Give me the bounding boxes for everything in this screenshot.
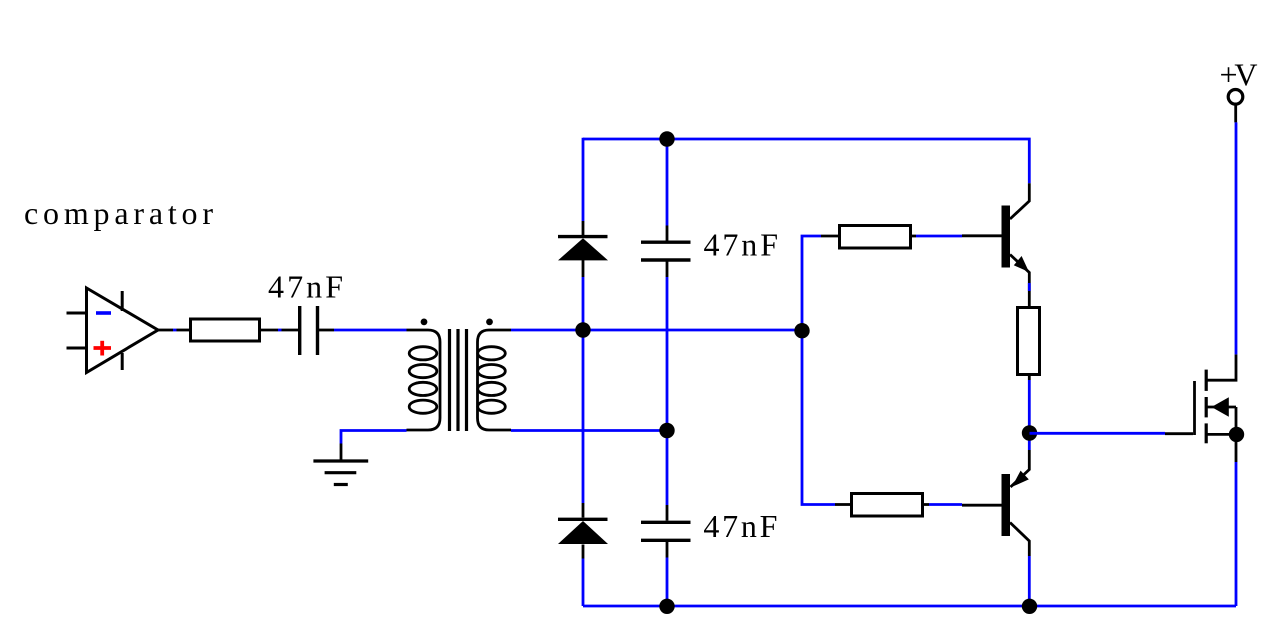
wire left vertical x=583 [582, 138, 585, 606]
ground [313, 461, 368, 485]
node dot mid wire / D1 line [575, 322, 590, 337]
wire gate [1030, 432, 1194, 435]
svg-text:comparator: comparator [24, 195, 213, 231]
resistor R1 [191, 319, 260, 341]
wire op-amp output [157, 329, 190, 332]
transistor Q1 (NPN top) [1002, 183, 1030, 306]
resistor R2 top [840, 226, 911, 249]
capacitor C2 47nF top [641, 242, 691, 260]
diode D1 [558, 237, 608, 261]
resistor R4 vertical [1018, 308, 1040, 375]
wire bottom rail [583, 605, 1236, 608]
wire branch x=802 to resistors [802, 236, 851, 505]
node dot emitter junction [1022, 425, 1037, 440]
wire R1 to C1 [261, 329, 298, 332]
transformer T1 [407, 319, 512, 432]
wire mosfet source down to bottom rail [1235, 434, 1238, 606]
op-amp U1 [67, 288, 159, 373]
wire primary bottom to ground [341, 431, 407, 461]
wire middle vertical x=667 [666, 139, 669, 606]
svg-text:47nF: 47nF [268, 269, 343, 305]
diode D2 [558, 519, 608, 544]
svg-text:47nF: 47nF [703, 508, 777, 544]
resistor R3 bottom [852, 494, 923, 517]
transistor Q2 (PNP bottom) [1002, 433, 1030, 606]
wire secondary top (node line y=330) [511, 329, 802, 332]
node dot bottom rail / Q2 collector [1022, 599, 1037, 614]
svg-text:+V: +V [1220, 57, 1258, 93]
node dot mosfet source [1229, 427, 1244, 442]
wire +V down to mosfet drain [1235, 122, 1238, 354]
svg-text:47nF: 47nF [704, 227, 779, 263]
mosfet Q3 [1195, 354, 1237, 443]
wire secondary bottom [511, 429, 667, 432]
capacitor C3 47nF bottom [641, 522, 691, 540]
node dot bottom rail / C3 [659, 599, 674, 614]
wire top rail [583, 139, 1029, 183]
capacitor C1 47nF [300, 306, 334, 355]
node dot mid wire / branch [794, 323, 809, 338]
node dot top rail / C2 [659, 131, 674, 146]
node dot secondary bottom / C3 line [659, 423, 674, 438]
wire C1 to transformer primary top [334, 329, 407, 332]
